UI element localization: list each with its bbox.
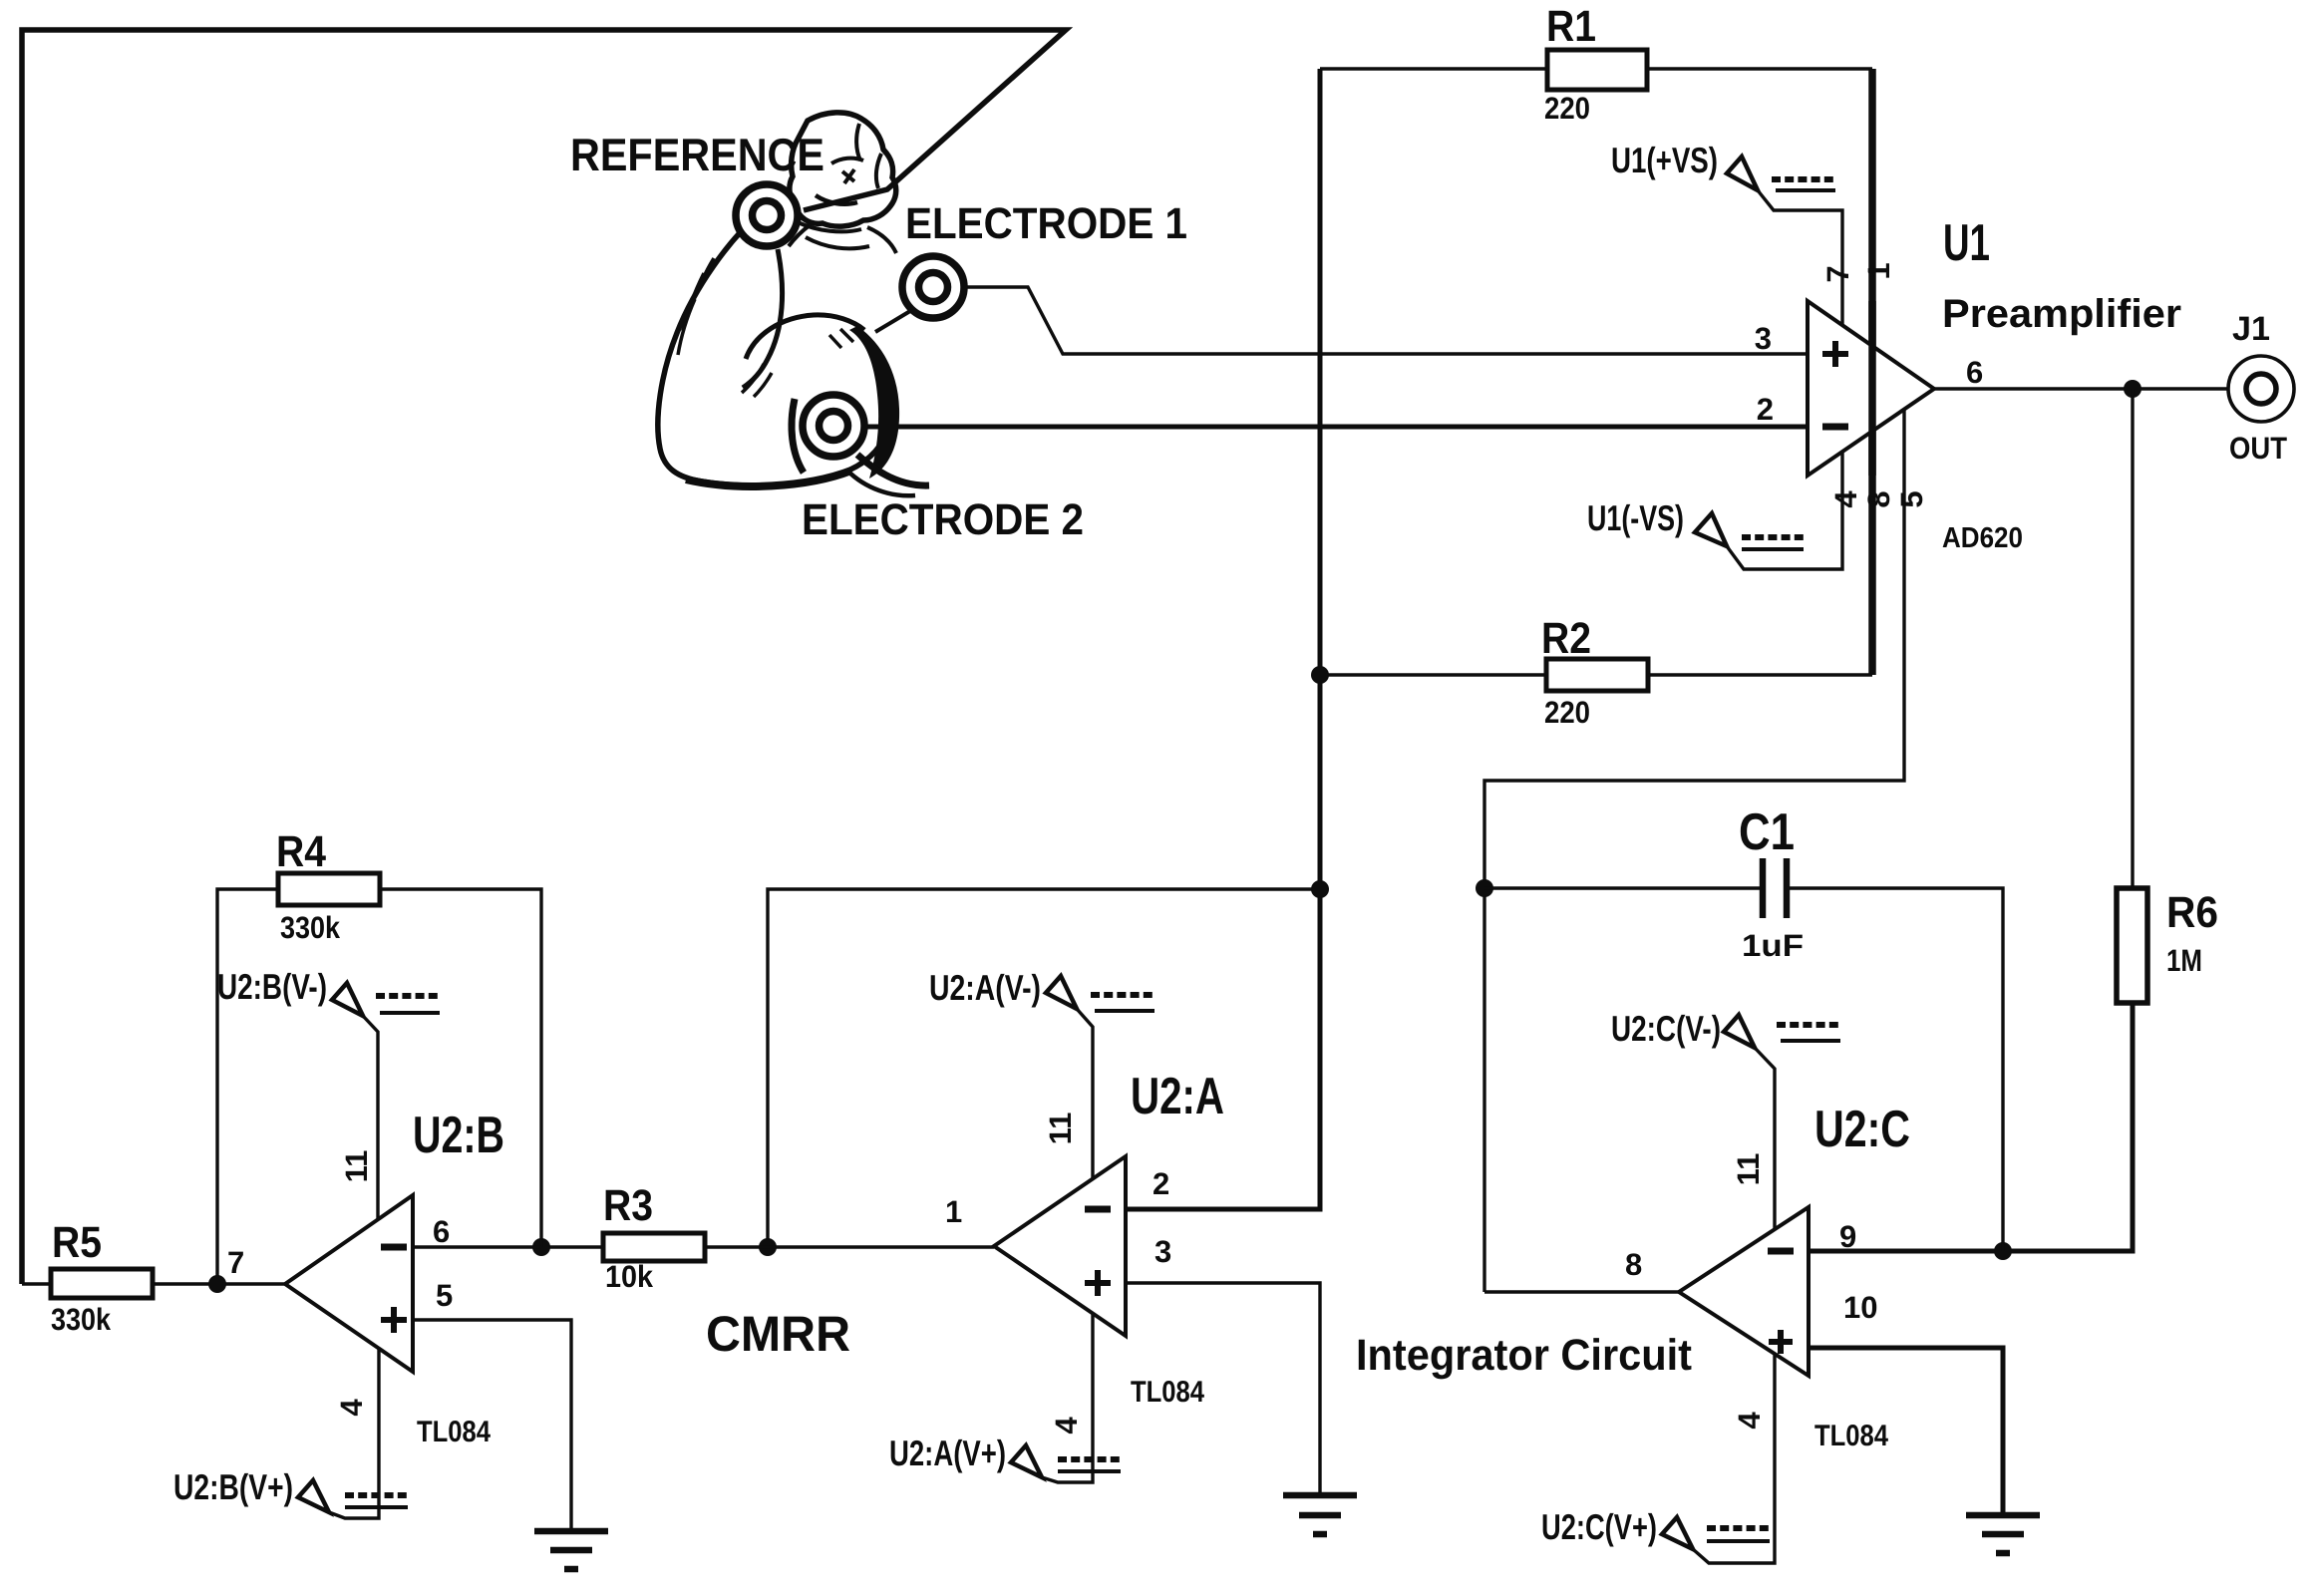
svg-text:2: 2 (1153, 1166, 1169, 1201)
svg-text:4: 4 (1049, 1417, 1084, 1435)
op-amp U1 (1808, 301, 1934, 476)
electrode2 surround gap (796, 388, 871, 464)
junction central/loop node (1311, 880, 1329, 898)
capacitor C1 (1763, 858, 1787, 918)
junction R2-left node (1311, 666, 1329, 684)
power flag U2:A(V-) (929, 967, 1154, 1179)
junction R5/R4 node (208, 1275, 226, 1293)
svg-text:U2:A(V+): U2:A(V+) (889, 1433, 1006, 1473)
svg-text:OUT: OUT (2229, 431, 2287, 466)
svg-text:TL084: TL084 (1814, 1420, 1888, 1452)
svg-text:6: 6 (433, 1214, 450, 1249)
armpit shadow (849, 326, 899, 479)
svg-text:REFERENCE: REFERENCE (570, 129, 824, 180)
svg-text:9: 9 (1839, 1219, 1856, 1254)
wire R5 left (22, 1282, 51, 1285)
bicep curve (746, 315, 864, 359)
op-amp U2:C (1679, 1207, 1809, 1376)
resistor R2 (1546, 659, 1648, 691)
svg-text:3: 3 (1755, 321, 1772, 356)
svg-text:8: 8 (1625, 1247, 1642, 1282)
power flag U2:A(V+) (889, 1313, 1121, 1482)
svg-text:7: 7 (1820, 265, 1855, 282)
electrode2 pigtail (857, 455, 929, 485)
electrode1 stem (875, 311, 910, 332)
svg-text:R4: R4 (276, 827, 326, 876)
resistor R5 (51, 1269, 153, 1298)
svg-text:7: 7 (227, 1245, 244, 1280)
wire U1 pin5 ref to integrator output (1484, 410, 1904, 1292)
wire C1 right down to pin9 node (1787, 888, 2003, 1251)
svg-text:CMRR: CMRR (706, 1306, 850, 1362)
wire R5 right to U2:B pin7 (153, 1282, 285, 1285)
under-arm shade line (686, 471, 851, 486)
svg-text:10k: 10k (605, 1259, 654, 1294)
ground at U2:A pin3 (1283, 1495, 1357, 1534)
wire U2:C pin10 to ground (1809, 1348, 2003, 1515)
electrode 1 pad (902, 256, 964, 318)
node ELECTRODE 2 label (802, 495, 1084, 544)
svg-text:TL084: TL084 (1131, 1376, 1204, 1409)
knuckle scribbles (829, 329, 853, 348)
fist (790, 113, 896, 226)
svg-text:Preamplifier: Preamplifier (1942, 292, 2181, 336)
wire electrode1 to U1 pin3 (965, 287, 1808, 354)
svg-text:U2:C: U2:C (1814, 1101, 1910, 1158)
wire electrode2 to U1 pin2 (865, 425, 1808, 430)
wire U2:B pin5 to ground (413, 1320, 571, 1531)
forearm outer edge (658, 213, 760, 481)
fist thumb (816, 195, 857, 204)
svg-text:10: 10 (1843, 1290, 1877, 1325)
svg-text:ELECTRODE 1: ELECTRODE 1 (905, 199, 1187, 248)
wire J1 node to R6 (2131, 389, 2134, 888)
power flag U2:B(V-) (217, 966, 440, 1219)
svg-text:U2:B(V-): U2:B(V-) (217, 966, 327, 1007)
svg-text:330k: 330k (280, 910, 341, 945)
wire U2:B pin6 (413, 1245, 541, 1248)
svg-text:U2:C(V+): U2:C(V+) (1541, 1506, 1657, 1547)
svg-text:4: 4 (334, 1399, 369, 1417)
svg-text:C1: C1 (1739, 803, 1795, 861)
power flag U2:C(V+) (1541, 1354, 1775, 1563)
wire R1 right (1647, 67, 1872, 70)
hatch marks forearm edge (678, 258, 714, 355)
wire U2:C pin8 output (1484, 1290, 1679, 1293)
wire U2:A loop (pin1 node up and over to central vertical) (768, 889, 1320, 1247)
svg-text:R5: R5 (52, 1218, 102, 1267)
svg-text:2: 2 (1757, 392, 1774, 427)
svg-text:R6: R6 (2166, 888, 2218, 937)
svg-text:U2:A(V-): U2:A(V-) (929, 967, 1041, 1008)
resistor R3 (603, 1233, 705, 1261)
wire reference lead (border top-left) (22, 30, 1066, 1284)
svg-text:220: 220 (1544, 695, 1590, 730)
svg-text:4: 4 (1732, 1412, 1767, 1430)
power flag U1(+VS) (1611, 140, 1842, 325)
node REFERENCE label (570, 129, 824, 180)
power flag U1(-VS) (1587, 453, 1842, 569)
svg-text:R1: R1 (1546, 2, 1596, 51)
svg-text:5: 5 (436, 1278, 453, 1313)
fist finger creases (831, 124, 881, 188)
svg-text:5: 5 (1894, 490, 1929, 507)
wire R2 right (1648, 673, 1872, 676)
svg-text:U1(-VS): U1(-VS) (1587, 497, 1684, 538)
arm body fill (658, 123, 893, 486)
svg-text:1M: 1M (2166, 943, 2202, 978)
svg-text:11: 11 (339, 1150, 374, 1183)
wire U1 pin1 vertical (thick, R1 to gain pin) (1868, 69, 1876, 675)
electrode 2 pad (803, 395, 864, 457)
junction C1 right / pin9 node (1994, 1242, 2012, 1260)
forearm inner line (743, 249, 783, 388)
wire R2 left (1320, 673, 1546, 676)
junction R3 right node (759, 1238, 777, 1256)
op-amp U2:B (285, 1195, 413, 1372)
electrode REFERENCE pad (736, 184, 798, 246)
svg-text:R3: R3 (603, 1181, 653, 1230)
hatch mark bicep (742, 364, 772, 397)
wire C1 left (1484, 886, 1763, 889)
junction output/R6 node (2124, 380, 2141, 398)
svg-text:U2:A: U2:A (1131, 1068, 1224, 1125)
svg-text:6: 6 (1966, 355, 1983, 390)
wire R4 right down to pin6 node (380, 889, 541, 1247)
junction C1 left node (1476, 879, 1493, 897)
power flag U2:B(V+) (173, 1348, 408, 1518)
wire R3 right (705, 1245, 768, 1248)
crease left of electrode2 (792, 399, 804, 473)
resistor R6 (2117, 888, 2147, 1003)
svg-text:1: 1 (945, 1194, 962, 1229)
svg-text:U1: U1 (1943, 214, 1990, 272)
svg-text:U2:B(V+): U2:B(V+) (173, 1466, 293, 1507)
svg-text:U2:C(V-): U2:C(V-) (1611, 1008, 1721, 1049)
svg-text:R2: R2 (1541, 614, 1591, 663)
ground at U2:C pin10 (1966, 1515, 2040, 1553)
svg-text:Integrator Circuit: Integrator Circuit (1356, 1331, 1692, 1380)
svg-text:U1(+VS): U1(+VS) (1611, 140, 1718, 180)
svg-text:AD620: AD620 (1942, 522, 2023, 554)
svg-text:J1: J1 (2232, 310, 2270, 348)
wire U2:A pin1 (768, 1245, 994, 1248)
arm bottom edge (702, 426, 889, 485)
svg-text:3: 3 (1154, 1234, 1171, 1269)
wire R4 loop left vertical (217, 889, 278, 1284)
op-amp U2:A (994, 1156, 1126, 1336)
knuckle shade under fist (806, 237, 869, 248)
svg-text:11: 11 (1731, 1153, 1766, 1186)
wire central node vertical (R1/R2 left to U2:A pin 2) (1126, 69, 1320, 1209)
svg-text:ELECTRODE 2: ELECTRODE 2 (802, 495, 1084, 544)
svg-text:4: 4 (1828, 490, 1863, 508)
wire R6 bottom to U2:C pin9 (1809, 1003, 2133, 1251)
arm graphic (flexed bicep) (658, 113, 929, 495)
wire U2:A pin3 to ground (1126, 1283, 1320, 1494)
svg-text:330k: 330k (51, 1302, 112, 1337)
svg-text:220: 220 (1544, 91, 1590, 126)
svg-text:11: 11 (1043, 1113, 1078, 1145)
svg-text:U2:B: U2:B (413, 1107, 504, 1164)
connector J1 (2228, 356, 2294, 422)
wire U1 output to J1 (1934, 387, 2228, 390)
wire R1 left (1320, 67, 1547, 70)
junction U2:B pin6 node (532, 1238, 550, 1256)
svg-text:8: 8 (1861, 490, 1896, 507)
svg-text:1: 1 (1861, 262, 1896, 279)
resistor R4 (278, 873, 380, 905)
wire R3 left (541, 1245, 603, 1248)
svg-text:1uF: 1uF (1742, 928, 1804, 963)
svg-text:TL084: TL084 (417, 1416, 491, 1448)
power flag U2:C(V-) (1611, 1008, 1840, 1229)
node ELECTRODE 1 label (905, 199, 1187, 248)
ground at U2:B pin5 (534, 1531, 608, 1569)
wrist lines (771, 215, 810, 246)
resistor R1 (1547, 50, 1647, 90)
